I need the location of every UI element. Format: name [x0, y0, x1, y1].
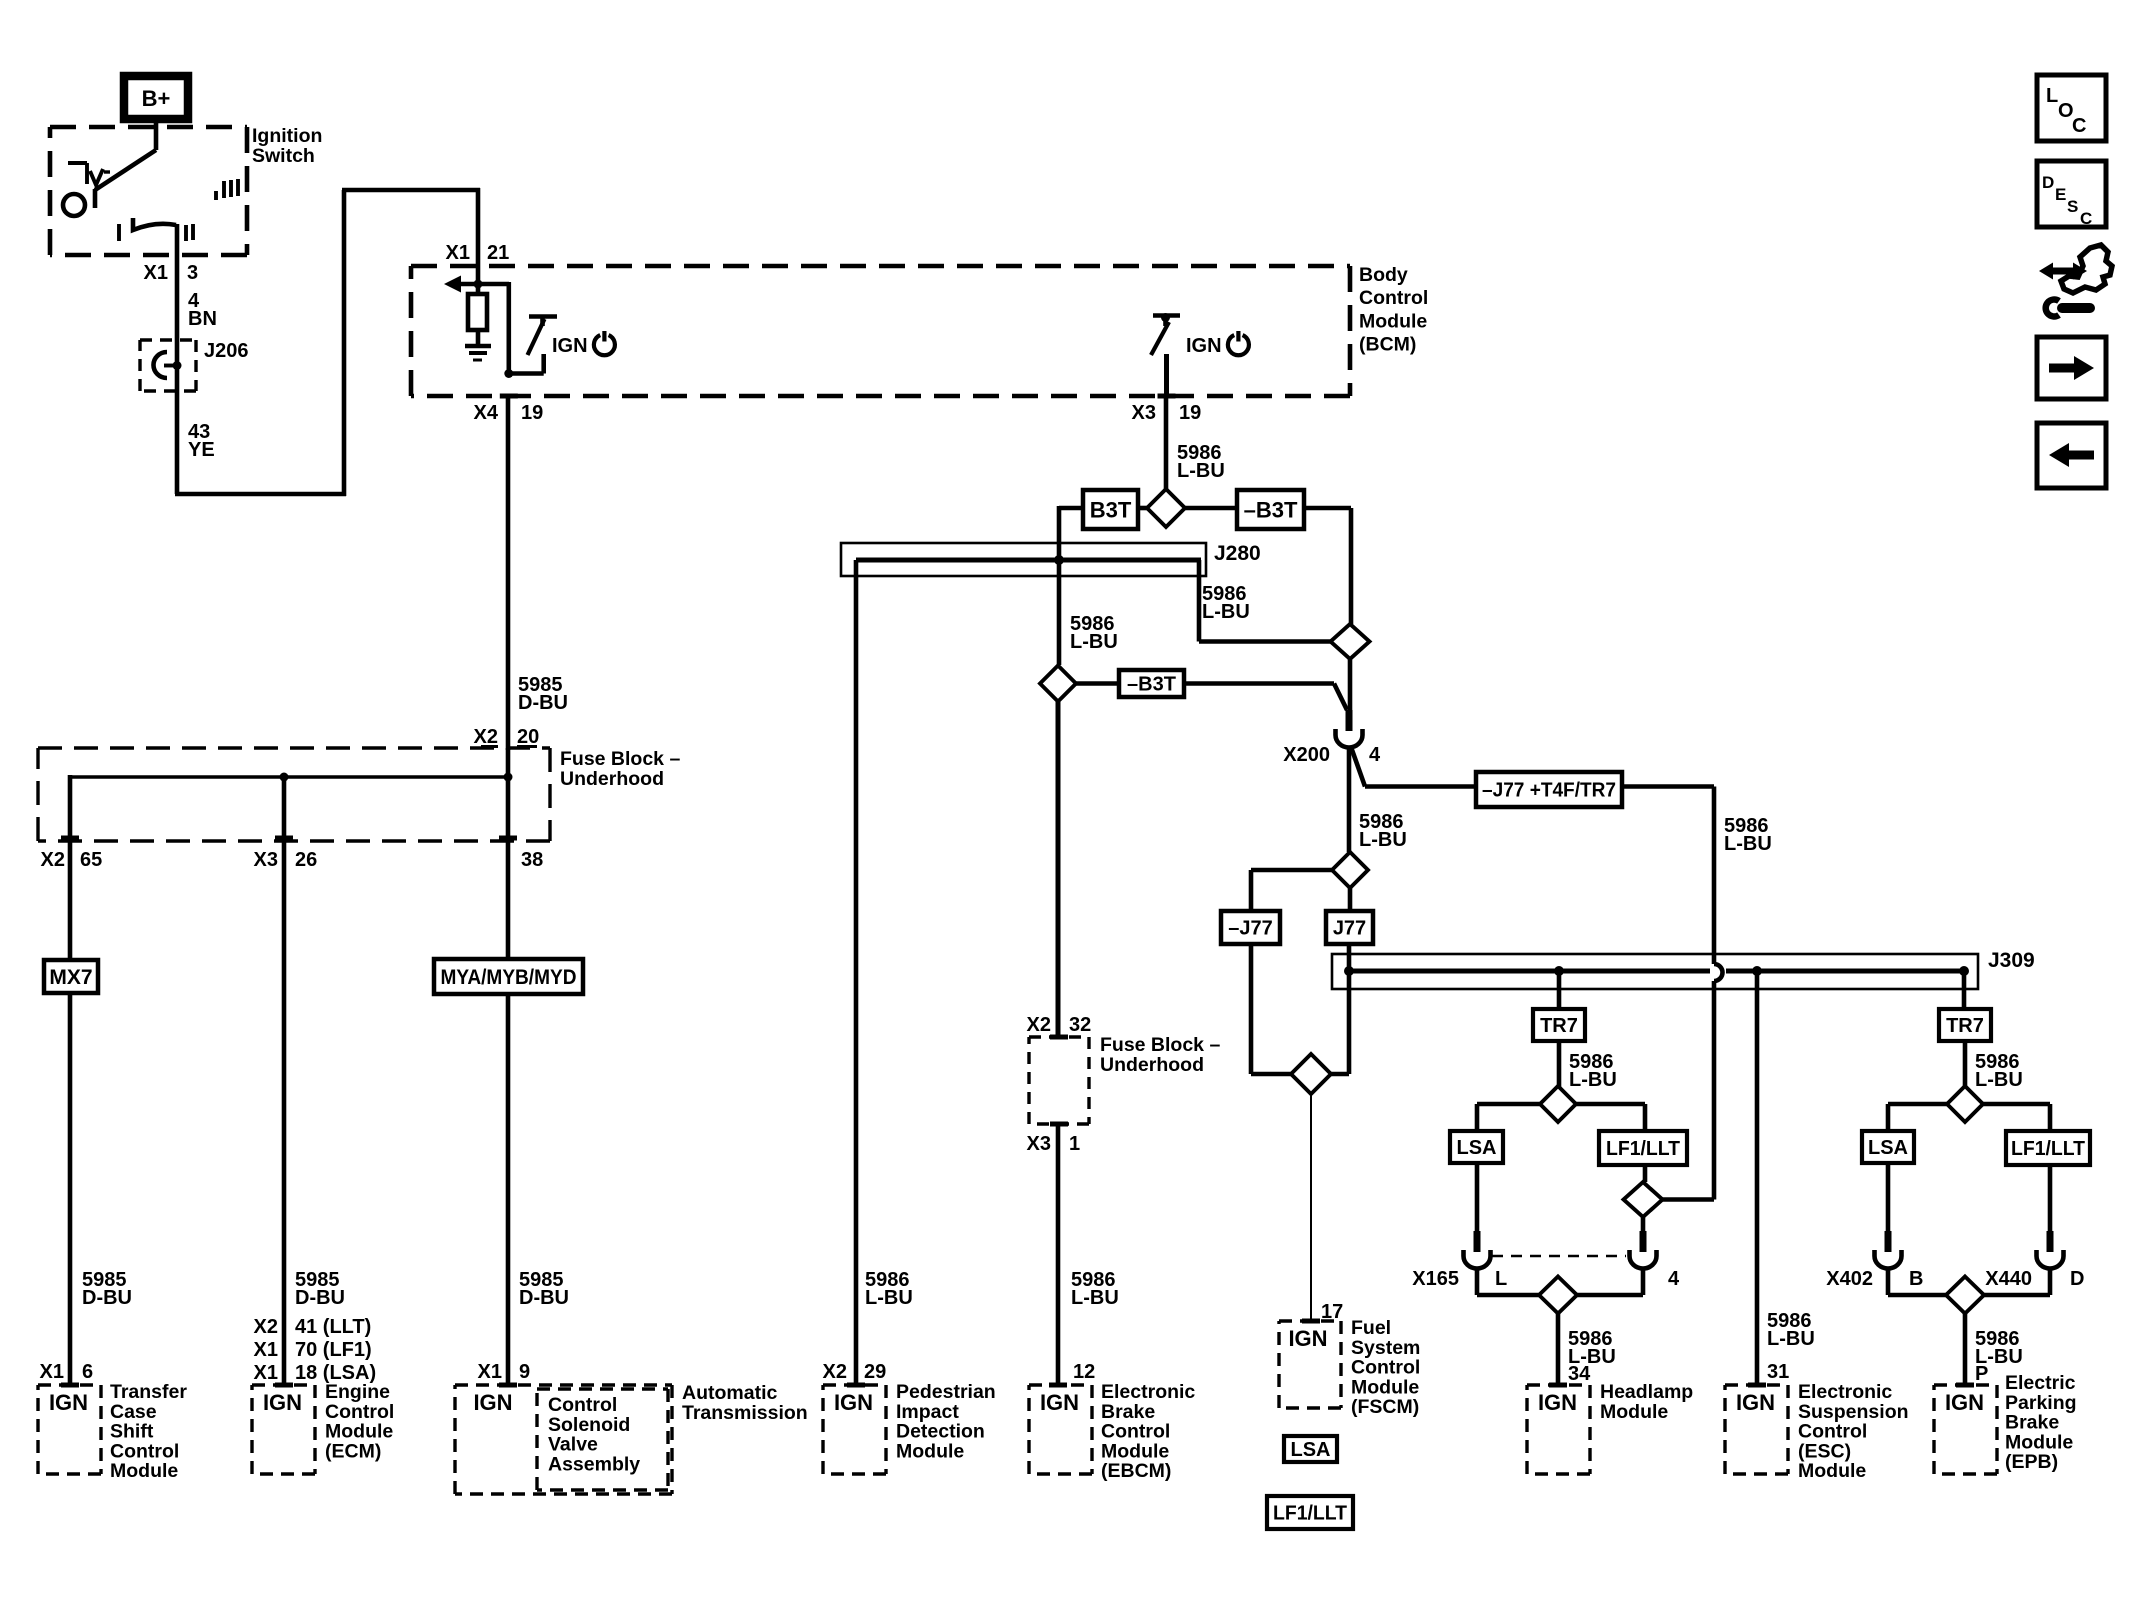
svg-text:Parking: Parking: [2005, 1392, 2077, 1414]
svg-text:L-BU: L-BU: [1975, 1069, 2023, 1091]
svg-text:Shift: Shift: [110, 1421, 154, 1443]
svg-text:–J77: –J77: [1228, 918, 1273, 940]
svg-text:X1: X1: [40, 1361, 64, 1383]
svg-text:–B3T: –B3T: [1127, 674, 1176, 696]
svg-text:Control: Control: [1101, 1421, 1170, 1443]
svg-text:LF1/LLT: LF1/LLT: [2011, 1138, 2085, 1160]
svg-text:Fuse Block –: Fuse Block –: [1100, 1034, 1220, 1056]
svg-text:Control: Control: [110, 1440, 179, 1462]
svg-text:X402: X402: [1826, 1268, 1873, 1290]
svg-text:Module: Module: [1600, 1401, 1668, 1423]
svg-text:Body: Body: [1359, 264, 1408, 286]
svg-text:Control: Control: [1351, 1357, 1420, 1379]
svg-text:Electric: Electric: [2005, 1372, 2076, 1394]
svg-text:Brake: Brake: [2005, 1412, 2059, 1434]
svg-text:IGN: IGN: [1945, 1390, 1984, 1415]
svg-text:Module: Module: [1798, 1460, 1866, 1482]
svg-text:Ignition: Ignition: [252, 125, 322, 147]
svg-text:D-BU: D-BU: [518, 692, 568, 714]
svg-text:LSA: LSA: [1291, 1439, 1331, 1461]
svg-text:E: E: [2055, 185, 2066, 204]
svg-text:(BCM): (BCM): [1359, 334, 1416, 356]
svg-text:38: 38: [521, 849, 543, 871]
svg-text:X3: X3: [254, 849, 278, 871]
svg-text:Switch: Switch: [252, 145, 315, 167]
svg-text:Underhood: Underhood: [1100, 1054, 1204, 1076]
svg-text:Case: Case: [110, 1401, 157, 1423]
svg-text:IGN: IGN: [1538, 1390, 1577, 1415]
svg-text:IGN: IGN: [1186, 335, 1222, 357]
svg-text:70 (LF1): 70 (LF1): [295, 1339, 372, 1361]
svg-text:YE: YE: [188, 439, 215, 461]
svg-text:LSA: LSA: [1457, 1137, 1497, 1159]
svg-text:D: D: [2070, 1268, 2084, 1290]
svg-text:X4: X4: [474, 402, 499, 424]
svg-text:1: 1: [1069, 1133, 1080, 1155]
svg-text:34: 34: [1568, 1363, 1591, 1385]
svg-text:Headlamp: Headlamp: [1600, 1381, 1693, 1403]
svg-text:65: 65: [80, 849, 102, 871]
svg-text:J206: J206: [204, 340, 249, 362]
svg-text:X200: X200: [1283, 744, 1330, 766]
svg-text:Assembly: Assembly: [548, 1453, 640, 1475]
svg-text:System: System: [1351, 1337, 1420, 1359]
svg-text:Underhood: Underhood: [560, 768, 664, 790]
svg-text:MYA/MYB/MYD: MYA/MYB/MYD: [441, 966, 577, 989]
svg-text:IGN: IGN: [1288, 1326, 1327, 1351]
svg-text:Electronic: Electronic: [1101, 1381, 1195, 1403]
svg-text:C: C: [2072, 115, 2086, 137]
svg-text:20: 20: [517, 726, 539, 748]
svg-text:4: 4: [1369, 744, 1381, 766]
svg-text:LF1/LLT: LF1/LLT: [1606, 1138, 1680, 1160]
svg-text:B+: B+: [142, 86, 171, 111]
svg-text:L-BU: L-BU: [1070, 631, 1118, 653]
svg-text:Impact: Impact: [896, 1401, 959, 1423]
svg-text:IGN: IGN: [1040, 1390, 1079, 1415]
svg-text:B: B: [1909, 1268, 1923, 1290]
svg-text:X2: X2: [474, 726, 498, 748]
svg-text:41 (LLT): 41 (LLT): [295, 1316, 371, 1338]
svg-text:(EBCM): (EBCM): [1101, 1460, 1171, 1482]
svg-text:9: 9: [519, 1361, 530, 1383]
svg-text:J309: J309: [1988, 949, 2035, 972]
svg-text:LSA: LSA: [1868, 1137, 1908, 1159]
svg-text:TR7: TR7: [1946, 1015, 1984, 1037]
svg-text:BN: BN: [188, 308, 217, 330]
svg-text:LF1/LLT: LF1/LLT: [1273, 1503, 1347, 1525]
svg-text:Control: Control: [1359, 287, 1428, 309]
svg-text:L-BU: L-BU: [865, 1287, 913, 1309]
svg-text:Module: Module: [1101, 1440, 1169, 1462]
svg-text:L: L: [1495, 1268, 1507, 1290]
svg-text:L-BU: L-BU: [1071, 1287, 1119, 1309]
svg-text:Fuel: Fuel: [1351, 1317, 1391, 1339]
svg-text:Engine: Engine: [325, 1381, 390, 1403]
svg-text:X440: X440: [1985, 1268, 2032, 1290]
svg-text:–B3T: –B3T: [1244, 497, 1298, 522]
svg-text:Transfer: Transfer: [110, 1381, 187, 1403]
svg-text:X2: X2: [1027, 1014, 1051, 1036]
svg-text:L-BU: L-BU: [1202, 601, 1250, 623]
svg-text:TR7: TR7: [1540, 1015, 1578, 1037]
svg-text:Control: Control: [548, 1394, 617, 1416]
svg-text:X3: X3: [1027, 1133, 1051, 1155]
svg-text:19: 19: [521, 402, 543, 424]
svg-text:6: 6: [82, 1361, 93, 1383]
svg-text:Transmission: Transmission: [682, 1402, 808, 1424]
svg-text:(EPB): (EPB): [2005, 1451, 2058, 1473]
svg-text:26: 26: [295, 849, 317, 871]
svg-text:L-BU: L-BU: [1177, 460, 1225, 482]
svg-text:D-BU: D-BU: [82, 1287, 132, 1309]
svg-text:Brake: Brake: [1101, 1401, 1155, 1423]
svg-text:D: D: [2042, 173, 2054, 192]
svg-text:3: 3: [187, 262, 198, 284]
svg-text:19: 19: [1179, 402, 1201, 424]
svg-text:Electronic: Electronic: [1798, 1381, 1892, 1403]
svg-text:IGN: IGN: [834, 1390, 873, 1415]
svg-text:L-BU: L-BU: [1724, 833, 1772, 855]
svg-text:X1: X1: [254, 1362, 278, 1384]
svg-text:X1: X1: [478, 1361, 502, 1383]
svg-text:X165: X165: [1412, 1268, 1459, 1290]
svg-text:X2: X2: [823, 1361, 847, 1383]
svg-text:L-BU: L-BU: [1359, 829, 1407, 851]
svg-text:X1: X1: [446, 242, 470, 264]
svg-text:Solenoid: Solenoid: [548, 1414, 630, 1436]
svg-text:X1: X1: [144, 262, 168, 284]
svg-text:Pedestrian: Pedestrian: [896, 1381, 996, 1403]
svg-text:IGN: IGN: [263, 1390, 302, 1415]
svg-text:L-BU: L-BU: [1767, 1328, 1815, 1350]
svg-text:Module: Module: [1359, 310, 1427, 332]
svg-text:12: 12: [1073, 1361, 1095, 1383]
svg-text:(ESC): (ESC): [1798, 1440, 1851, 1462]
svg-text:J280: J280: [1214, 542, 1261, 565]
svg-text:Fuse Block –: Fuse Block –: [560, 748, 680, 770]
svg-text:L-BU: L-BU: [1569, 1069, 1617, 1091]
svg-text:MX7: MX7: [49, 966, 92, 989]
svg-text:C: C: [2080, 209, 2092, 228]
svg-text:4: 4: [1668, 1268, 1680, 1290]
svg-text:Control: Control: [1798, 1421, 1867, 1443]
svg-text:P: P: [1975, 1363, 1988, 1385]
svg-text:D-BU: D-BU: [295, 1287, 345, 1309]
svg-text:Suspension: Suspension: [1798, 1401, 1909, 1423]
svg-text:Module: Module: [325, 1421, 393, 1443]
svg-text:Valve: Valve: [548, 1434, 598, 1456]
svg-text:Automatic: Automatic: [682, 1382, 777, 1404]
svg-text:Module: Module: [2005, 1431, 2073, 1453]
svg-text:–J77 +T4F/TR7: –J77 +T4F/TR7: [1482, 780, 1616, 802]
svg-text:IGN: IGN: [1736, 1390, 1775, 1415]
svg-text:X2: X2: [41, 849, 65, 871]
svg-text:X2: X2: [254, 1316, 278, 1338]
svg-text:32: 32: [1069, 1014, 1091, 1036]
svg-text:L: L: [2046, 85, 2058, 107]
svg-text:(FSCM): (FSCM): [1351, 1396, 1419, 1418]
svg-text:J77: J77: [1333, 918, 1366, 940]
svg-text:Detection: Detection: [896, 1421, 985, 1443]
svg-text:D-BU: D-BU: [519, 1287, 569, 1309]
svg-text:B3T: B3T: [1090, 497, 1132, 522]
svg-text:29: 29: [864, 1361, 886, 1383]
svg-text:Module: Module: [896, 1440, 964, 1462]
svg-text:IGN: IGN: [552, 335, 588, 357]
svg-text:IGN: IGN: [49, 1390, 88, 1415]
svg-text:(ECM): (ECM): [325, 1440, 381, 1462]
svg-text:21: 21: [487, 242, 509, 264]
svg-text:IGN: IGN: [473, 1390, 512, 1415]
svg-text:Control: Control: [325, 1401, 394, 1423]
svg-text:Module: Module: [110, 1460, 178, 1482]
svg-text:Module: Module: [1351, 1376, 1419, 1398]
svg-text:X1: X1: [254, 1339, 278, 1361]
svg-text:31: 31: [1767, 1361, 1789, 1383]
svg-text:S: S: [2067, 197, 2078, 216]
svg-text:X3: X3: [1132, 402, 1156, 424]
